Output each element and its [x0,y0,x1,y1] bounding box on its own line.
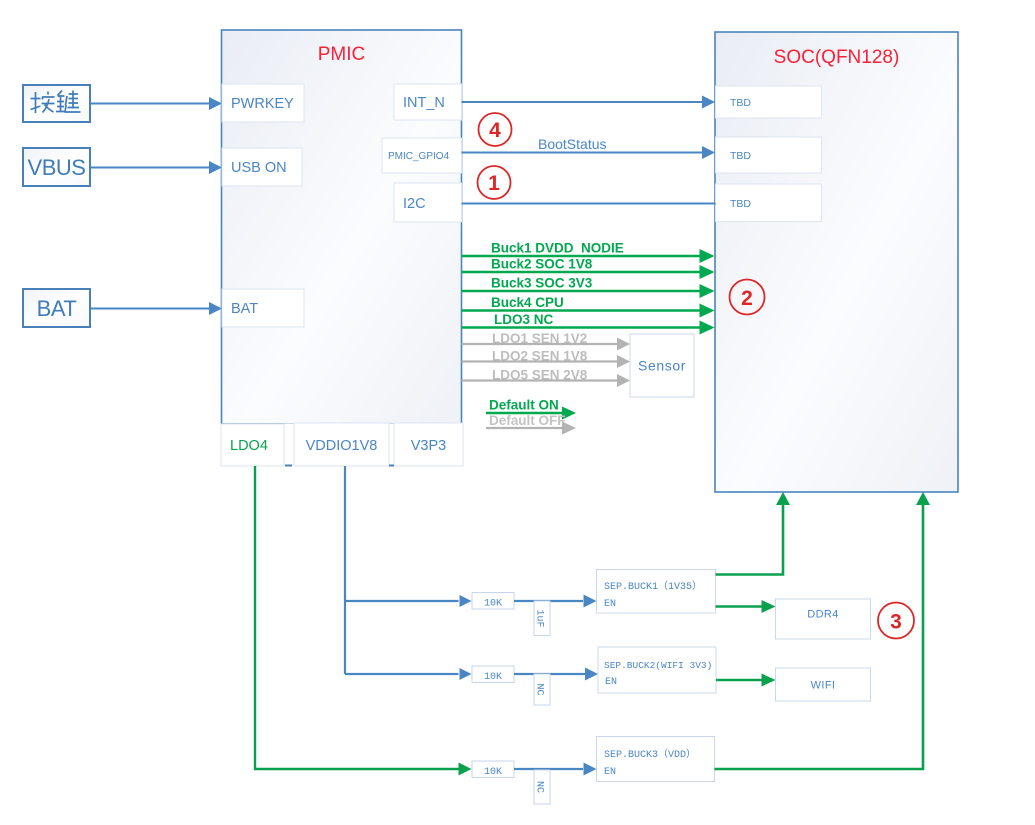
wire SEP.BUCK1 output to DDR4 [716,605,763,608]
PMIC pin USB ON [222,148,302,186]
wire VDDIO1V8 net (blue) vertical [344,466,346,674]
svg-text:NC: NC [534,683,545,695]
load DDR4 [776,599,871,639]
svg-text:EN: EN [604,767,616,778]
regulator SEP.BUCK3 [597,737,715,782]
input box BAT [23,289,90,327]
svg-text:LDO3 NC: LDO3 NC [494,312,554,327]
wire 10K row3 to SEP.BUCK3 EN [514,768,583,770]
capacitor C 1uF row1 [534,601,550,636]
svg-text:SEP.BUCK1（1V35）: SEP.BUCK1（1V35） [604,580,702,593]
svg-text:I2C: I2C [403,196,426,212]
hidden row edge dash right [389,465,394,467]
resistor 10K row1 [472,593,514,610]
PMIC pin INT_N [394,84,462,120]
PMIC pin PWRKEY [222,84,304,122]
component NC row2 [534,674,550,705]
PMIC pin V3P3 [394,423,463,466]
svg-text:VBUS: VBUS [28,155,86,180]
svg-text:INT_N: INT_N [403,95,445,111]
svg-text:LDO4: LDO4 [230,438,268,454]
svg-text:TBD: TBD [730,97,751,109]
svg-text:SOC(QFN128): SOC(QFN128) [774,47,900,68]
svg-text:PWRKEY: PWRKEY [231,96,294,112]
circled number 3 [878,603,914,639]
svg-text:10K: 10K [484,599,502,610]
svg-text:VDDIO1V8: VDDIO1V8 [306,438,378,454]
regulator SEP.BUCK2 [598,647,716,693]
Sensor block [630,334,694,397]
svg-text:10K: 10K [484,767,502,778]
svg-text:SEP.BUCK3（VDD）: SEP.BUCK3（VDD） [604,748,696,761]
SOC pin TBD1 [716,86,822,118]
PMIC pin VDDIO1V8 [294,423,389,466]
svg-text:DDR4: DDR4 [807,609,839,621]
svg-text:SEP.BUCK2(WIFI 3V3): SEP.BUCK2(WIFI 3V3) [604,660,712,671]
glyph 按 [31,92,55,114]
svg-text:1uF: 1uF [534,609,545,627]
PMIC pin PMIC_GPIO4 [382,138,462,173]
input box 按键 [23,85,90,122]
PMIC pin BAT [222,289,304,327]
SOC U2 main block [715,32,958,492]
port row backing [223,424,461,466]
wire SEP.BUCK3 output to SOC (up arrow) [715,504,924,769]
svg-text:Default OFF: Default OFF [489,413,566,428]
wire I2C to TBD3 [462,203,716,205]
svg-text:Sensor: Sensor [638,358,686,374]
svg-text:BAT: BAT [231,301,258,317]
wire 10K row1 to SEP.BUCK1 EN [514,600,583,602]
glyph 键 [56,91,81,113]
svg-text:BAT: BAT [37,296,77,321]
svg-text:PMIC_GPIO4: PMIC_GPIO4 [388,151,450,162]
wire INT_N to TBD1 [462,101,703,103]
svg-text:V3P3: V3P3 [411,438,446,454]
svg-text:Buck4 CPU: Buck4 CPU [491,295,564,310]
wire LDO4 net (green) down and right to R 10K [255,466,459,769]
svg-text:TBD: TBD [730,198,751,210]
input box VBUS [23,148,90,186]
load WIFI [776,668,871,701]
SOC pin TBD2 [716,137,822,173]
svg-text:1: 1 [488,172,500,195]
resistor 10K row2 [472,666,514,683]
wire branch to R 10K row1 [345,600,459,602]
component NC row3 [534,770,550,804]
svg-text:USB ON: USB ON [231,160,287,176]
svg-text:WIFI: WIFI [811,680,836,692]
svg-text:EN: EN [605,677,617,688]
wire 按键 to PWRKEY [91,103,209,105]
regulator SEP.BUCK1 [597,570,716,614]
PMIC pin I2C [394,183,462,222]
circled number 4 [479,113,512,146]
wire VBUS to USB ON [91,167,209,169]
svg-text:TBD: TBD [730,150,751,162]
PMIC pin LDO4 [221,424,284,466]
wire branch to R 10K row2 [345,673,459,675]
svg-text:10K: 10K [484,672,502,683]
svg-text:Buck3 SOC 3V3: Buck3 SOC 3V3 [491,276,593,291]
svg-text:Buck1 DVDD NODIE: Buck1 DVDD NODIE [491,241,624,256]
svg-text:Default ON: Default ON [489,398,559,413]
PMIC U1 main block [222,30,462,424]
svg-text:Buck2 SOC 1V8: Buck2 SOC 1V8 [491,257,593,272]
wire 10K row2 to SEP.BUCK2 EN [514,673,585,675]
svg-text:4: 4 [489,119,501,142]
wire PMIC_GPIO4 to TBD2, net BootStatus [462,152,703,154]
resistor 10K row3 [472,761,514,778]
wire SEP.BUCK1 output to SOC (up arrow) [716,504,784,575]
svg-text:NC: NC [534,781,545,793]
circled number 1 [478,166,511,199]
hidden row edge dash left [285,465,292,467]
wire SEP.BUCK2 output to WIFI [716,679,762,682]
svg-text:PMIC: PMIC [318,44,366,65]
svg-text:2: 2 [741,287,753,310]
circled number 2 [730,280,765,315]
svg-text:BootStatus: BootStatus [538,136,607,152]
SOC pin TBD3 [716,184,822,222]
svg-text:3: 3 [890,611,902,634]
svg-text:EN: EN [604,599,616,610]
wire BAT to BAT [91,308,209,310]
